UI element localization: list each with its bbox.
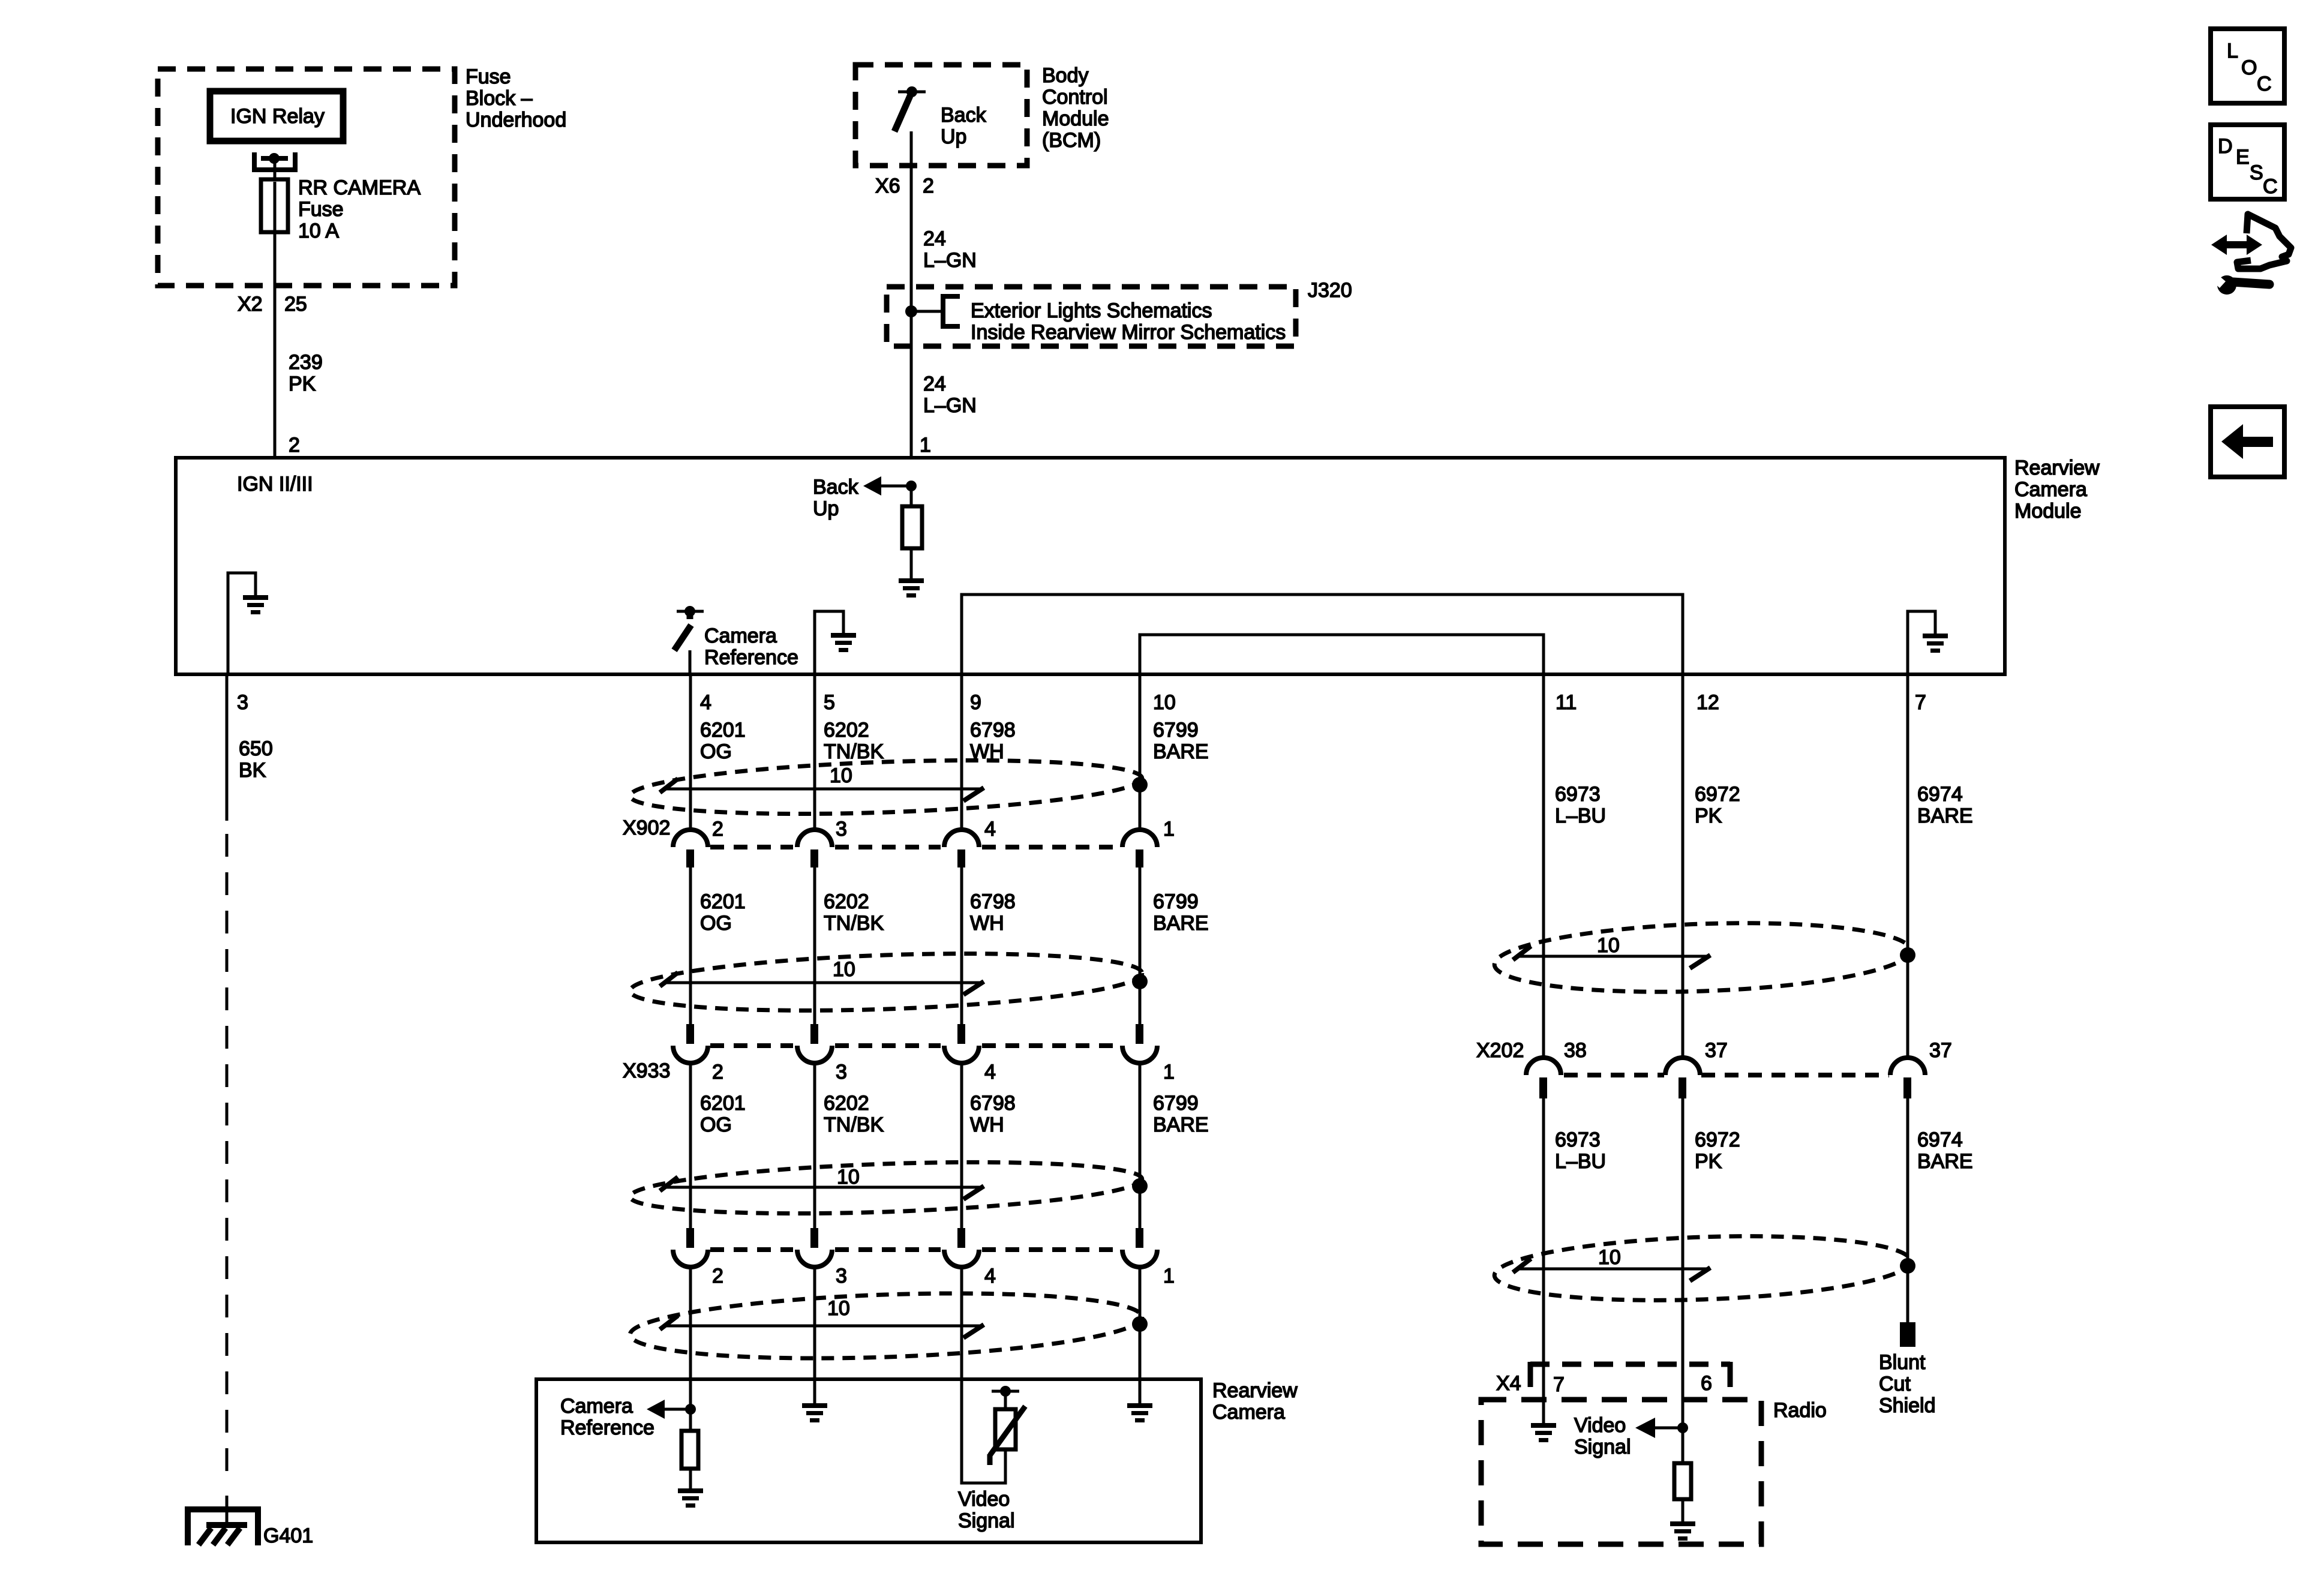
wire 650 BK dashed segment [226, 834, 229, 1482]
svg-text:3: 3 [237, 691, 248, 714]
svg-text:Video: Video [958, 1488, 1010, 1511]
wire label 24 L-GN lower [923, 373, 977, 417]
svg-text:6202: 6202 [824, 1092, 869, 1115]
svg-text:Up: Up [813, 497, 839, 520]
junction dot shield 3 [1132, 1178, 1148, 1194]
relay IGN Relay [210, 91, 343, 141]
svg-text:1: 1 [1163, 1265, 1175, 1287]
svg-text:6973: 6973 [1555, 783, 1601, 806]
svg-text:6973: 6973 [1555, 1128, 1601, 1151]
wire 6973 L-BU segment 2 [1542, 1098, 1545, 1423]
connector X202 labels [1476, 1039, 1952, 1062]
connector X4 dashed line [1530, 1362, 1730, 1387]
fuse label [298, 176, 421, 242]
wire 6202 TN/BK segment 2 [813, 867, 816, 1024]
wire label 24 L-GN upper [923, 227, 977, 272]
wire 6202 TN/BK segment 4 [813, 1267, 816, 1379]
wire 24 L-GN BCM to module pin 1 [910, 131, 913, 458]
svg-text:10: 10 [833, 958, 855, 981]
svg-text:7: 7 [1915, 691, 1926, 714]
module label [2014, 457, 2100, 523]
svg-text:6798: 6798 [970, 1092, 1016, 1115]
wire labels row C [700, 1092, 1209, 1136]
internal wire pin 9 to pin 12 [962, 595, 1683, 674]
svg-text:Up: Up [941, 125, 966, 148]
svg-text:6798: 6798 [970, 890, 1016, 913]
junction dot shield 1 [1132, 777, 1148, 792]
svg-text:Camera: Camera [560, 1395, 633, 1418]
video signal label camera [958, 1488, 1015, 1532]
backup switch in BCM [894, 86, 926, 131]
DESC icon box [2211, 125, 2284, 199]
svg-text:10: 10 [1598, 1246, 1621, 1269]
svg-text:6972: 6972 [1695, 783, 1740, 806]
svg-text:PK: PK [289, 373, 316, 395]
shield drain line 2 [660, 972, 984, 995]
camera connector dashed line [710, 1247, 1119, 1252]
connector X202 dashed line [1564, 1073, 1889, 1077]
svg-text:PK: PK [1695, 1150, 1722, 1173]
svg-text:OG: OG [700, 912, 732, 935]
radio label [1773, 1399, 1827, 1422]
Back Up label in BCM [941, 104, 987, 148]
svg-text:4: 4 [984, 1061, 996, 1083]
svg-text:Blunt: Blunt [1879, 1351, 1926, 1374]
shield size label 10 [830, 764, 852, 787]
svg-text:38: 38 [1564, 1039, 1587, 1062]
svg-text:3: 3 [836, 1265, 847, 1287]
camera reference switch internal [674, 606, 704, 674]
ground G401 [188, 1496, 258, 1545]
svg-text:C: C [2263, 175, 2278, 198]
svg-text:25: 25 [284, 293, 307, 316]
svg-text:WH: WH [970, 1113, 1004, 1136]
svg-text:Inside Rearview Mirror Schemat: Inside Rearview Mirror Schematics [971, 321, 1286, 344]
svg-text:10: 10 [830, 764, 852, 787]
svg-text:9: 9 [970, 691, 981, 714]
svg-text:TN/BK: TN/BK [824, 912, 884, 935]
svg-text:RR CAMERA: RR CAMERA [298, 176, 421, 199]
wire 239 PK fuse to module pin 2 [274, 232, 277, 458]
wire 6974 BARE segment 2 [1906, 1098, 1909, 1322]
svg-text:S: S [2250, 161, 2263, 184]
svg-text:6202: 6202 [824, 890, 869, 913]
svg-text:3: 3 [836, 818, 847, 840]
svg-text:Body: Body [1042, 64, 1089, 87]
camera reference label [560, 1395, 654, 1439]
svg-text:TN/BK: TN/BK [824, 1113, 884, 1136]
J320 label [1308, 279, 1352, 302]
wire 6798 WH segment 2 [960, 867, 963, 1024]
svg-text:37: 37 [1705, 1039, 1728, 1062]
camera reference label internal [704, 625, 798, 669]
svg-text:Reference: Reference [704, 646, 798, 669]
wire 6201 OG segment 2 [689, 867, 692, 1024]
schematic reference labels [971, 299, 1286, 344]
twisted shield ellipse 4 [629, 1286, 1143, 1366]
junction dot shield 4 [1132, 1316, 1148, 1332]
backup signal arrow and dot [863, 476, 917, 496]
svg-text:6201: 6201 [700, 890, 746, 913]
svg-text:Underhood: Underhood [466, 109, 566, 131]
twisted shield ellipse 2 [629, 946, 1143, 1018]
ground pin 3 internal [228, 573, 268, 674]
wire 6974 BARE segment 1 [1906, 674, 1909, 1059]
twisted shield ellipse 3 [629, 1155, 1143, 1221]
svg-text:BARE: BARE [1153, 1113, 1209, 1136]
svg-text:Exterior Lights Schematics: Exterior Lights Schematics [971, 299, 1212, 322]
svg-text:E: E [2236, 146, 2250, 169]
svg-text:BK: BK [239, 759, 266, 782]
BCM dashed box [855, 65, 1027, 166]
wire labels row R2 [1555, 1128, 1973, 1173]
wire 6202 TN/BK segment 1 [813, 674, 816, 830]
wire 6972 PK segment 2 [1682, 1098, 1685, 1463]
svg-text:IGN Relay: IGN Relay [230, 105, 325, 128]
svg-text:Radio: Radio [1773, 1399, 1827, 1422]
svg-text:7: 7 [1553, 1373, 1565, 1396]
svg-text:6: 6 [1701, 1372, 1712, 1395]
svg-text:Camera: Camera [2014, 478, 2087, 501]
svg-text:X902: X902 [623, 816, 670, 839]
resistor backup pull-up [902, 486, 922, 578]
svg-text:Module: Module [2014, 500, 2082, 523]
ground radio termination [1670, 1521, 1695, 1541]
fuse RR CAMERA 10A [261, 163, 288, 232]
svg-text:6798: 6798 [970, 719, 1016, 742]
wire 6799 BARE segment 3 [1139, 1063, 1142, 1228]
svg-text:BARE: BARE [1153, 912, 1209, 935]
Back Up label in module [813, 476, 859, 520]
video signal label radio [1574, 1414, 1631, 1458]
LOC icon box [2211, 29, 2284, 103]
svg-text:2: 2 [923, 175, 934, 197]
svg-text:Video: Video [1574, 1414, 1626, 1437]
svg-text:L–BU: L–BU [1555, 804, 1606, 827]
svg-text:1: 1 [920, 434, 931, 457]
radio dashed box [1481, 1400, 1761, 1544]
svg-text:WH: WH [970, 912, 1004, 935]
svg-text:D: D [2218, 135, 2233, 158]
svg-text:Fuse: Fuse [298, 198, 344, 221]
svg-text:2: 2 [712, 1061, 723, 1083]
shield drain line R2 [1513, 1259, 1710, 1281]
wire 6799 BARE segment 4 [1139, 1267, 1142, 1379]
svg-text:Rearview: Rearview [1212, 1379, 1298, 1402]
fuse block label [466, 65, 566, 131]
back arrow icon [2211, 407, 2284, 477]
resistor radio termination [1674, 1463, 1691, 1521]
wire 6201 OG segment 4 [689, 1267, 692, 1379]
svg-text:X4: X4 [1496, 1372, 1521, 1395]
svg-text:6799: 6799 [1153, 719, 1199, 742]
wire 6201 OG segment 1 [689, 674, 692, 830]
blunt cut shield label [1879, 1351, 1936, 1417]
ground backup internal [899, 578, 924, 598]
twisted shield ellipse 1 [629, 753, 1143, 821]
svg-text:Back: Back [941, 104, 987, 127]
connector X933 terminals [673, 1024, 1157, 1063]
harness repair icon [2211, 214, 2291, 295]
svg-text:L–BU: L–BU [1555, 1150, 1606, 1173]
svg-text:11: 11 [1556, 691, 1577, 714]
svg-text:Block –: Block – [466, 87, 533, 110]
shield size label 10 [1597, 934, 1620, 957]
twisted shield ellipse R1 [1493, 917, 1911, 998]
shield drain line 3 [660, 1177, 984, 1199]
wire 6798 WH segment 1 [960, 674, 963, 830]
module pin 2 label [289, 434, 300, 457]
svg-text:10: 10 [1153, 691, 1176, 714]
svg-text:3: 3 [836, 1061, 847, 1083]
svg-text:IGN II/III: IGN II/III [237, 473, 313, 496]
svg-text:G401: G401 [263, 1524, 313, 1547]
shield size label 10 [837, 1166, 860, 1188]
IGN II/III label [237, 473, 313, 496]
svg-text:6201: 6201 [700, 1092, 746, 1115]
G401 label [263, 1524, 313, 1547]
svg-text:6202: 6202 [824, 719, 869, 742]
svg-text:Reference: Reference [560, 1416, 654, 1439]
svg-text:4: 4 [984, 1265, 996, 1287]
blunt cut shield terminal [1900, 1322, 1915, 1347]
svg-text:BARE: BARE [1153, 740, 1209, 763]
svg-text:12: 12 [1697, 691, 1719, 714]
svg-text:1: 1 [1163, 818, 1175, 840]
svg-text:10: 10 [827, 1297, 850, 1320]
svg-text:(BCM): (BCM) [1042, 129, 1101, 152]
svg-text:1: 1 [1163, 1061, 1175, 1083]
module pin 1 label [920, 434, 931, 457]
rearview camera box [536, 1379, 1201, 1542]
svg-text:OG: OG [700, 740, 732, 763]
connector X902 labels [623, 816, 1175, 840]
wire labels row A [700, 719, 1209, 763]
wire 6973 L-BU segment 1 [1542, 674, 1545, 1059]
svg-text:L–GN: L–GN [923, 249, 977, 272]
svg-text:10: 10 [837, 1166, 860, 1188]
ground radio pin 7 [1531, 1423, 1556, 1442]
twisted shield ellipse R2 [1493, 1230, 1911, 1307]
svg-text:TN/BK: TN/BK [824, 740, 884, 763]
wire label 650 BK [239, 737, 273, 782]
svg-text:Control: Control [1042, 86, 1108, 109]
svg-text:650: 650 [239, 737, 273, 760]
resistor camera reference [681, 1431, 698, 1488]
connector X4 labels [1496, 1372, 1712, 1396]
svg-text:2: 2 [712, 1265, 723, 1287]
fuse block underhood dashed box [158, 69, 455, 286]
svg-text:2: 2 [712, 818, 723, 840]
wire labels row R1 [1555, 783, 1973, 827]
svg-text:X2: X2 [238, 293, 263, 316]
shield size label 10 [833, 958, 855, 981]
svg-text:C: C [2257, 73, 2272, 95]
svg-text:6201: 6201 [700, 719, 746, 742]
relay output terminal [254, 152, 295, 170]
svg-text:Back: Back [813, 476, 859, 499]
wire 6799 BARE segment 2 [1139, 867, 1142, 1024]
svg-text:PK: PK [1695, 804, 1722, 827]
svg-text:OG: OG [700, 1113, 732, 1136]
svg-text:24: 24 [923, 373, 946, 395]
ground camera pin 3 [802, 1379, 827, 1422]
svg-text:Fuse: Fuse [466, 65, 511, 88]
junction dot shield 2 [1132, 974, 1148, 989]
svg-text:6974: 6974 [1917, 783, 1963, 806]
wire 6201 OG segment 3 [689, 1063, 692, 1228]
camera connector pin labels [712, 1265, 1175, 1287]
svg-text:Module: Module [1042, 107, 1109, 130]
shield drain line 4 [660, 1316, 984, 1338]
ground pin 7 internal [1908, 611, 1948, 674]
reference bracket and wire in J320 [911, 296, 960, 326]
svg-text:X933: X933 [623, 1059, 670, 1082]
svg-text:2: 2 [289, 434, 300, 457]
connector X933 labels [623, 1059, 1175, 1083]
wire 6798 WH segment 3 [960, 1063, 963, 1228]
junction dot on wire at J320 [905, 305, 917, 317]
video signal source element [962, 1379, 1025, 1483]
svg-text:4: 4 [700, 691, 711, 714]
module bottom pin labels [237, 691, 1926, 714]
connector X202 terminals [1526, 1058, 1925, 1098]
rearview camera label [1212, 1379, 1298, 1424]
svg-text:Rearview: Rearview [2014, 457, 2100, 479]
svg-text:O: O [2241, 56, 2257, 79]
svg-text:37: 37 [1929, 1039, 1952, 1062]
svg-text:BARE: BARE [1917, 804, 1973, 827]
svg-text:L: L [2227, 40, 2238, 62]
junction dot shield R1 [1900, 947, 1915, 963]
connector X902 dashed line [710, 845, 1119, 849]
connector X902 terminals [673, 830, 1157, 867]
svg-text:Camera: Camera [704, 625, 777, 647]
svg-text:5: 5 [824, 691, 835, 714]
wire 650 BK solid segment [226, 674, 229, 821]
camera connector terminals [673, 1228, 1157, 1267]
connector X2 pin 25 labels [238, 293, 307, 316]
shield drain line R1 [1513, 946, 1710, 968]
svg-text:Camera: Camera [1212, 1401, 1285, 1424]
ground pin 5 internal [815, 611, 856, 674]
svg-text:6799: 6799 [1153, 1092, 1199, 1115]
svg-text:24: 24 [923, 227, 946, 250]
camera reference arrow and dot [647, 1379, 696, 1431]
svg-text:Shield: Shield [1879, 1394, 1936, 1417]
svg-text:6974: 6974 [1917, 1128, 1963, 1151]
svg-text:10: 10 [1597, 934, 1620, 957]
svg-text:239: 239 [289, 351, 323, 374]
svg-text:X202: X202 [1476, 1039, 1524, 1062]
wire 6798 WH segment 4 [960, 1267, 963, 1379]
wire label 239 PK [289, 351, 323, 395]
svg-text:Signal: Signal [1574, 1436, 1631, 1458]
rearview camera module box [176, 458, 2005, 674]
wire 6799 BARE segment 1 [1139, 674, 1142, 830]
BCM label [1042, 64, 1109, 152]
svg-text:Signal: Signal [958, 1509, 1015, 1532]
svg-text:BARE: BARE [1917, 1150, 1973, 1173]
ground camera shield [1127, 1379, 1152, 1422]
connector X933 dashed line [710, 1043, 1119, 1048]
svg-text:J320: J320 [1308, 279, 1352, 302]
svg-text:6799: 6799 [1153, 890, 1199, 913]
svg-text:6972: 6972 [1695, 1128, 1740, 1151]
svg-text:L–GN: L–GN [923, 394, 977, 417]
splice J320 dashed box [887, 287, 1296, 346]
internal wire pin 10 to pin 11 [1140, 635, 1544, 674]
ground camera reference [678, 1488, 703, 1508]
svg-text:Cut: Cut [1879, 1373, 1911, 1395]
junction dot shield R2 [1900, 1258, 1915, 1274]
wire 6202 TN/BK segment 3 [813, 1063, 816, 1228]
wire 6972 PK segment 1 [1682, 674, 1685, 1059]
svg-text:4: 4 [984, 818, 996, 840]
svg-text:X6: X6 [875, 175, 900, 197]
shield drain line 1 [660, 779, 984, 801]
svg-text:10 A: 10 A [298, 220, 339, 242]
wire labels row B [700, 890, 1209, 935]
shield size label 10 [1598, 1246, 1621, 1269]
video signal arrow radio [1635, 1418, 1688, 1438]
connector X6 pin 2 labels [875, 175, 934, 197]
shield size label 10 [827, 1297, 850, 1320]
